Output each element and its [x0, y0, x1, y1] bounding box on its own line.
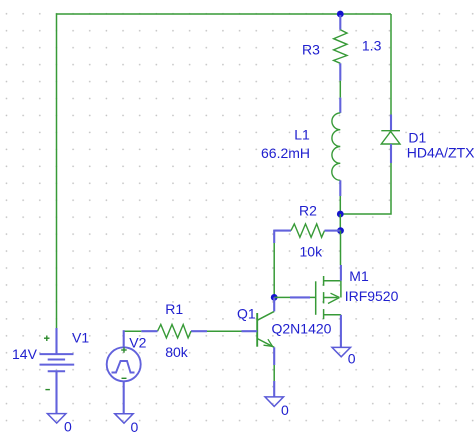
source V2 top pin — [123, 330, 125, 347]
resistor R2 — [291, 224, 325, 237]
wire V2 to R1 — [124, 330, 142, 332]
node junction J1 (top rail / R3) — [337, 11, 344, 18]
node junction J3 (gate node) — [271, 294, 278, 301]
mosfet M1 source pin — [340, 315, 342, 348]
ground V1 — [47, 414, 66, 424]
svg-text:0: 0 — [281, 402, 289, 418]
wire J2 to J2b — [339, 214, 341, 231]
source V2 bottom pin — [123, 381, 125, 413]
source V2 — [107, 347, 141, 381]
svg-text:IRF9520: IRF9520 — [345, 288, 399, 304]
svg-text:R1: R1 — [165, 301, 183, 317]
ground Q1 — [265, 397, 284, 407]
mosfet M1 gate pin (blue) — [290, 296, 310, 298]
resistor R3 bottom pin — [339, 63, 341, 80]
diode D1 cathode pin — [390, 115, 392, 131]
mosfet M1 drain pin — [340, 265, 342, 281]
resistor R3 top pin — [339, 15, 341, 30]
svg-text:HD4A/ZTX: HD4A/ZTX — [407, 145, 475, 161]
wire right branch upper — [390, 14, 392, 115]
source V1 bottom pin — [55, 371, 57, 413]
svg-text:0: 0 — [348, 350, 356, 366]
ground Q1 pin — [273, 381, 275, 397]
source V2 plus sign — [121, 347, 127, 352]
wire gate node to gate (green) — [274, 296, 290, 298]
svg-text:66.2mH: 66.2mH — [261, 145, 310, 161]
transistor Q1 emitter pin — [273, 347, 275, 365]
svg-text:10k: 10k — [300, 243, 324, 259]
ground V2 — [115, 414, 134, 424]
source V1 plus sign — [44, 336, 50, 342]
wire R1 to base — [207, 330, 242, 332]
resistor R1 right pin — [191, 330, 207, 332]
transistor Q1 — [257, 311, 274, 347]
svg-text:14V: 14V — [12, 346, 38, 362]
diode D1 — [381, 131, 400, 144]
inductor L1 top pin — [339, 98, 341, 113]
source V1 battery plates — [40, 354, 75, 371]
resistor R2 left pin — [274, 230, 291, 232]
inductor L1 — [332, 113, 341, 180]
source V2 pulse waveform — [112, 361, 135, 373]
transistor Q1 base pin — [242, 330, 258, 332]
wire top rail — [57, 13, 392, 15]
wire L1 to node J2 — [339, 196, 341, 214]
transistor Q1 collector pin — [273, 297, 275, 311]
wire emitter to ground — [273, 365, 275, 381]
resistor R1 — [158, 325, 192, 338]
diode D1 anode pin — [390, 144, 392, 163]
resistor R1 left pin — [141, 330, 157, 332]
svg-text:Q1: Q1 — [237, 305, 256, 321]
source V1 minus sign — [45, 389, 50, 391]
resistor R2 right pin — [325, 230, 341, 232]
wire right branch lower — [342, 163, 391, 214]
svg-text:M1: M1 — [349, 268, 369, 284]
svg-text:80k: 80k — [165, 344, 189, 360]
svg-text:V2: V2 — [129, 335, 146, 351]
wire R2 left drop upper (blue) — [273, 230, 275, 243]
mosfet M1 — [310, 276, 341, 319]
node junction J2 (D1 branch) — [337, 211, 344, 218]
resistor R3 — [334, 30, 347, 64]
source V2 minus sign — [122, 377, 127, 379]
svg-text:1.3: 1.3 — [362, 38, 382, 54]
node junction J2b (R2 / drain) — [337, 227, 344, 234]
svg-text:0: 0 — [64, 419, 72, 435]
svg-text:Q2N1420: Q2N1420 — [272, 321, 332, 337]
wire R3 to L1 — [339, 81, 341, 98]
svg-text:V1: V1 — [72, 330, 89, 346]
wire R2 left drop to gate node — [273, 243, 275, 297]
svg-text:R2: R2 — [299, 203, 317, 219]
inductor L1 bottom pin — [339, 180, 341, 196]
svg-text:0: 0 — [131, 419, 139, 435]
svg-text:L1: L1 — [294, 127, 310, 143]
svg-text:R3: R3 — [302, 41, 320, 57]
source V1 top pin — [55, 328, 57, 354]
svg-text:D1: D1 — [408, 129, 426, 145]
wire J2b to drain — [340, 231, 342, 265]
wire left rail — [56, 13, 58, 328]
ground M1 — [332, 347, 351, 356]
